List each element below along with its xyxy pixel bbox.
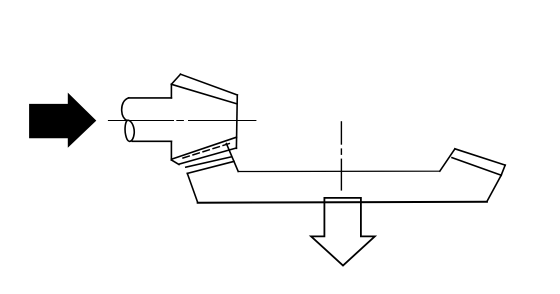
- tube top edge: [186, 157, 232, 167]
- vertical centerline (dash-dot load axis): [340, 122, 342, 190]
- shaft bottom line: [132, 140, 171, 142]
- hub bottom taper edge: [171, 137, 236, 159]
- shaft break: lower loop: [125, 120, 134, 141]
- end plate top edge: [455, 149, 505, 165]
- beam top line: [238, 170, 440, 172]
- bracket left end diagonal: [171, 160, 179, 165]
- load arrow (white, pointing down): [311, 198, 375, 266]
- beam bottom line: [198, 201, 487, 204]
- horizontal centerline (dash-dot axis of shaft): [108, 120, 256, 122]
- hub right edge: [235, 95, 238, 148]
- force arrow (solid black, pointing right): [29, 93, 96, 148]
- arm right slanted edge: [226, 144, 238, 172]
- arm left slanted edge: [187, 173, 197, 202]
- hub top bevel: [171, 74, 180, 84]
- arm bottom-right edge: [487, 175, 501, 201]
- end plate right edge: [501, 165, 505, 175]
- bracket lower edge: [179, 148, 236, 164]
- end plate inner line: [452, 158, 501, 176]
- hub top step: [170, 84, 172, 98]
- bracket hidden dashed line: [183, 144, 230, 159]
- hub bottom step: [170, 141, 172, 160]
- beam right kick-up edge: [440, 149, 455, 171]
- hub top taper edge: [181, 74, 238, 95]
- tube end edge: [187, 161, 234, 173]
- shaft top line: [129, 97, 172, 99]
- shaft break: upper arc: [122, 98, 129, 121]
- hub chamfer lower line: [171, 84, 236, 104]
